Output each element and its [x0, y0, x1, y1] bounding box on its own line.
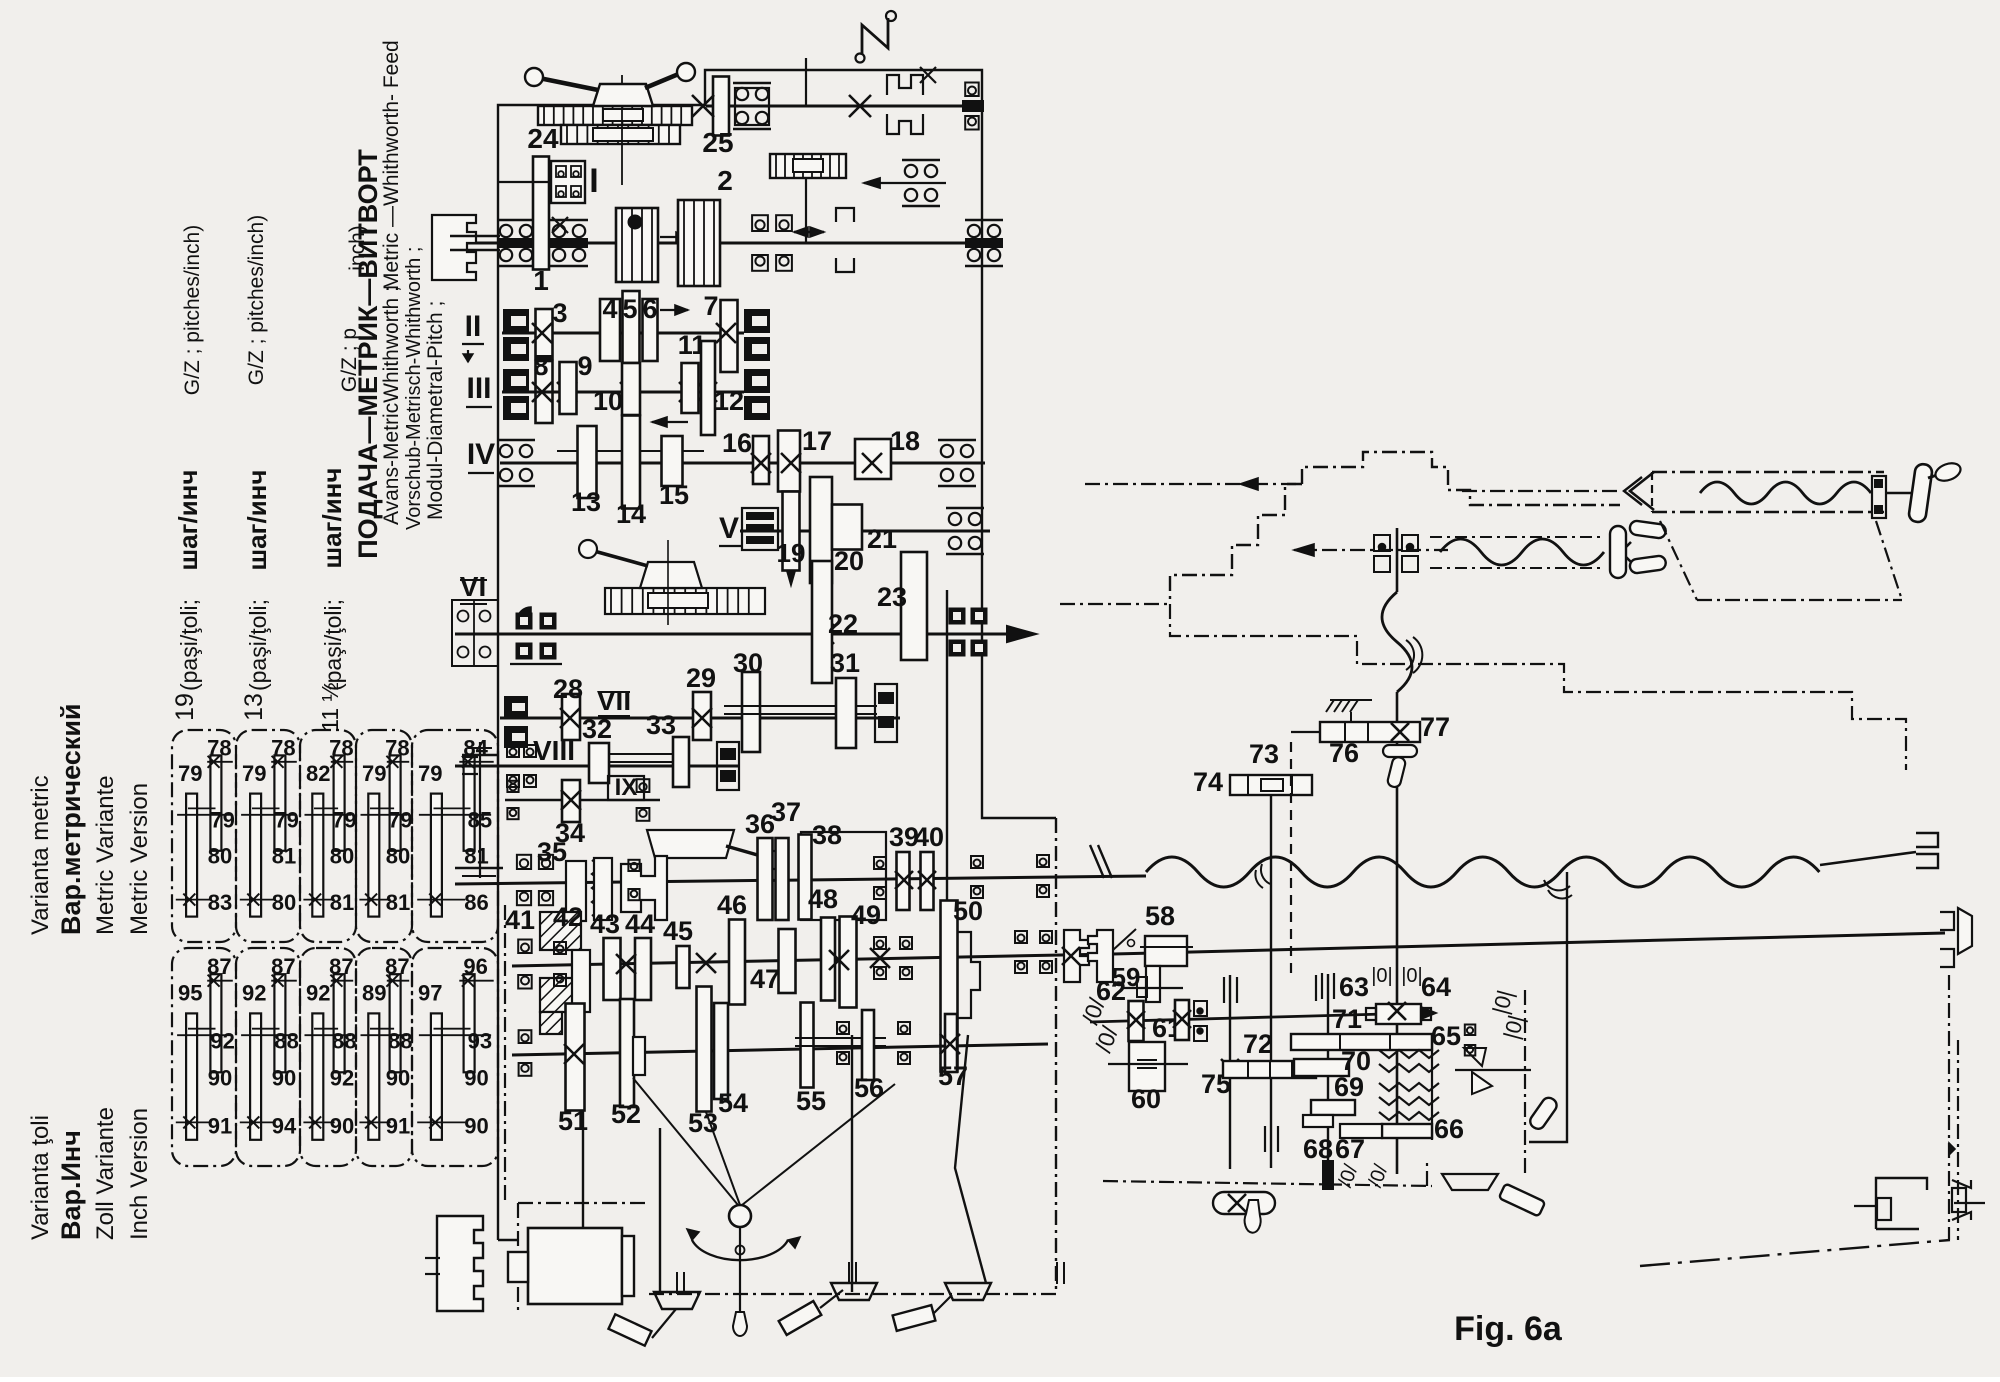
arrow gear10 — [652, 421, 688, 423]
gear 13 — [578, 426, 597, 498]
gear 23 — [901, 552, 927, 660]
vertical link 73 to apron — [1270, 795, 1272, 1168]
svg-text:9: 9 — [577, 351, 592, 381]
leadscrew arc marks — [1544, 880, 1570, 890]
svg-text:80: 80 — [208, 844, 232, 869]
x marks VI — [814, 624, 834, 644]
svg-text:88: 88 — [332, 1028, 356, 1053]
svg-text:72: 72 — [1243, 1029, 1273, 1059]
svg-text:Vorschub-Metrisch-Whithworth ;: Vorschub-Metrisch-Whithworth ; — [403, 247, 425, 530]
overload symbol N — [862, 18, 888, 55]
svg-text:78: 78 — [329, 735, 353, 760]
bearing block I upper — [551, 161, 585, 203]
gear 55 — [801, 1003, 814, 1088]
svg-text:40: 40 — [914, 822, 944, 852]
bottom cover outline — [582, 1075, 584, 1292]
lower shaft 51-57 — [512, 1044, 1048, 1055]
svg-text:51: 51 — [558, 1106, 588, 1136]
svg-text:Zoll Variante: Zoll Variante — [92, 1107, 119, 1240]
bottom right diagonal — [1640, 1240, 1950, 1266]
tailstock screw axis — [1294, 549, 1448, 551]
right end bearing — [1952, 1180, 1971, 1220]
svg-text:92: 92 — [210, 1028, 234, 1053]
svg-text:(paşi/ţoli;: (paşi/ţoli; — [245, 599, 271, 691]
svg-text:86: 86 — [464, 890, 488, 915]
gear 21 — [832, 505, 862, 550]
bearing IX left wall — [507, 781, 518, 792]
toolpost sketch lower — [647, 830, 734, 858]
svg-text:90: 90 — [464, 1113, 488, 1138]
spindle spline left — [432, 215, 476, 280]
svg-text:19: 19 — [171, 693, 199, 721]
bearing gear1 — [550, 219, 588, 222]
arrow into clutch — [864, 182, 946, 184]
right cover verticals — [1524, 990, 1526, 1173]
svg-text:VII: VII — [597, 685, 631, 716]
right border dashdot pair — [1948, 975, 1950, 1240]
gear 14 — [622, 416, 640, 509]
shaft II — [502, 332, 744, 335]
gear 76 77 bar — [1326, 700, 1372, 712]
bearing 4c V right — [946, 507, 984, 510]
svg-text:87: 87 — [271, 954, 295, 979]
svg-text:30: 30 — [733, 648, 763, 678]
svg-text:31: 31 — [830, 648, 860, 678]
tailstock screw fork — [1611, 542, 1631, 562]
svg-text:ПОДАЧА—МЕТРИК—ВИТВОРТ: ПОДАЧА—МЕТРИК—ВИТВОРТ — [353, 149, 383, 559]
svg-text:шаг/инч: шаг/инч — [242, 470, 272, 571]
handle right mid — [1528, 1095, 1560, 1131]
bearing X left — [517, 855, 531, 869]
bearing X right2 — [1037, 855, 1049, 867]
svg-text:Inch Version: Inch Version — [126, 1108, 153, 1240]
gear 35 zigzag clutch — [566, 861, 586, 921]
gear 73 74 bar — [1230, 775, 1312, 795]
bearing VIII left — [507, 745, 519, 757]
svg-text:79: 79 — [210, 808, 234, 833]
aux line IV — [557, 450, 704, 452]
gear with dot shaft I — [616, 208, 658, 282]
svg-text:49: 49 — [851, 900, 881, 930]
gear 61b — [1175, 1000, 1189, 1040]
pulley castellated — [437, 1216, 483, 1311]
selector rod vertical — [1529, 872, 1567, 1142]
pawl lever 65 right — [1464, 1048, 1486, 1066]
gear 18 — [855, 439, 891, 479]
svg-text:88: 88 — [274, 1028, 298, 1053]
svg-text:V: V — [719, 512, 739, 545]
link 76 left — [1291, 731, 1320, 733]
svg-text:58: 58 — [1145, 901, 1175, 931]
svg-text:76: 76 — [1329, 738, 1359, 768]
svg-text:3: 3 — [552, 298, 567, 328]
svg-text:94: 94 — [272, 1113, 297, 1138]
svg-text:46: 46 — [717, 890, 747, 920]
bearing 4c IV right — [938, 439, 976, 442]
gear 52 — [620, 999, 634, 1107]
arrow shaft I — [660, 236, 690, 238]
hub lines VIII — [609, 753, 674, 755]
svg-text:Varianta metric: Varianta metric — [27, 775, 54, 935]
handwheel — [729, 1205, 751, 1227]
shaft break symbol — [1090, 845, 1104, 878]
clutch stack V — [746, 512, 774, 520]
gear 58 — [1145, 936, 1187, 966]
gear 7 — [721, 300, 738, 372]
svg-text:G/Z ; pitches/inch): G/Z ; pitches/inch) — [181, 225, 204, 395]
chuck handle right — [645, 73, 681, 88]
svg-text:77: 77 — [1420, 712, 1450, 742]
shaft III — [502, 391, 744, 394]
gear 11 — [682, 363, 699, 413]
cross shaft 75 — [1229, 975, 1231, 1169]
svg-text:55: 55 — [796, 1086, 826, 1116]
svg-text:VIII: VIII — [533, 735, 575, 766]
ratchet top right — [887, 75, 923, 95]
svg-text:45: 45 — [663, 916, 693, 946]
svg-text:24: 24 — [527, 123, 559, 154]
wall bearings right III — [744, 369, 770, 393]
gear 49 — [840, 917, 857, 1008]
gear 54 — [714, 1003, 728, 1099]
worm top bearing — [1374, 535, 1390, 551]
svg-text:56: 56 — [854, 1073, 884, 1103]
tailstock screw wavy — [1430, 536, 1600, 538]
svg-text:29: 29 — [686, 663, 716, 693]
gear 32 — [589, 743, 609, 783]
metric gear set box 3 — [300, 730, 356, 942]
lever bottom mid — [779, 1301, 822, 1335]
svg-text:78: 78 — [207, 735, 231, 760]
vertical dashed 76 to apron — [1290, 742, 1292, 975]
svg-text:13: 13 — [240, 693, 268, 721]
foot right — [945, 1283, 991, 1300]
svg-text:15: 15 — [659, 480, 689, 510]
shaft VIII — [455, 765, 740, 768]
svg-text:48: 48 — [808, 884, 838, 914]
gear 66 bar — [1382, 1124, 1432, 1138]
gear 16 — [753, 436, 769, 484]
svg-text:80: 80 — [272, 890, 296, 915]
svg-text:Metric Variante: Metric Variante — [92, 775, 119, 935]
gear 34 — [562, 780, 580, 822]
gears 36 37 — [758, 838, 773, 920]
motor — [528, 1228, 622, 1304]
clutch dark VII right — [875, 684, 897, 742]
svg-text:80: 80 — [386, 844, 410, 869]
bearing X mid — [874, 857, 886, 869]
bearing 4c IV left — [497, 439, 535, 442]
gear 2 — [678, 200, 720, 286]
metric gear set box 5 — [412, 730, 498, 942]
vertical shaft 1328 — [1327, 974, 1329, 1160]
gear 71 bar — [1291, 1034, 1432, 1050]
bearing 61 — [1194, 1001, 1207, 1016]
gear 33 — [673, 737, 689, 787]
carriage quill band — [1652, 471, 1884, 473]
svg-text:IX: IX — [615, 774, 638, 801]
arrow shaft VI — [1007, 626, 1036, 642]
svg-text:79: 79 — [332, 808, 356, 833]
svg-text:7: 7 — [703, 291, 718, 321]
svg-text:II: II — [465, 310, 482, 343]
carriage top dashdot — [1085, 483, 1302, 485]
svg-text:17: 17 — [802, 426, 832, 456]
safety pin symbol — [1113, 929, 1136, 950]
gear 72 bar — [1223, 1061, 1316, 1078]
svg-text:шаг/инч: шаг/инч — [317, 468, 347, 569]
svg-text:87: 87 — [207, 954, 231, 979]
svg-text:92: 92 — [242, 980, 266, 1005]
svg-text:64: 64 — [1421, 972, 1451, 1002]
clutch dark VIII — [717, 742, 739, 790]
gear 9 — [560, 362, 577, 414]
svg-text:Вар.метрический: Вар.метрический — [56, 703, 86, 935]
bearing dark shaft I rightwall — [965, 219, 1003, 222]
gear 19 — [783, 492, 800, 571]
svg-text:90: 90 — [330, 1113, 354, 1138]
chuck body — [538, 106, 692, 125]
shift fork brackets — [836, 208, 854, 222]
metric gear set box 1 — [172, 730, 236, 942]
shaft 25 — [706, 105, 981, 108]
gear 51 — [566, 1004, 585, 1111]
overrunning clutch 25 — [770, 154, 846, 178]
gear 38 and box — [801, 832, 886, 920]
svg-text:90: 90 — [386, 1065, 410, 1090]
svg-text:90: 90 — [208, 1065, 232, 1090]
gear 60 — [1129, 1042, 1165, 1091]
svg-text:13: 13 — [571, 487, 601, 517]
apron right foot — [1442, 1174, 1498, 1190]
chuck handle left — [593, 84, 653, 106]
carriage screw axis left — [1462, 490, 1622, 492]
shaft V — [740, 530, 990, 533]
gear 8 — [536, 361, 553, 423]
inch gear set box 2 — [236, 948, 300, 1166]
svg-text:11 ½: 11 ½ — [317, 682, 343, 731]
svg-text:Metric Version: Metric Version — [126, 783, 153, 935]
shaft VI — [455, 633, 1007, 636]
toolpost sketch middle — [605, 588, 765, 614]
svg-text:54: 54 — [718, 1088, 748, 1118]
square bearings VI right — [949, 608, 966, 625]
shaft XI feed rod — [512, 954, 1113, 966]
apron bottom lever — [1213, 1192, 1275, 1214]
svg-text:97: 97 — [418, 980, 442, 1005]
dark blob VI — [517, 607, 531, 620]
svg-text:90: 90 — [272, 1065, 296, 1090]
svg-text:78: 78 — [271, 735, 295, 760]
x mark shaft25 right — [849, 95, 871, 117]
gear 30 — [742, 672, 760, 752]
apron vertical 1432 — [1431, 1034, 1433, 1140]
bearing lower left — [519, 1030, 532, 1043]
svg-text:89: 89 — [362, 980, 386, 1005]
square bearings VI left — [516, 613, 533, 630]
svg-text:68: 68 — [1303, 1134, 1333, 1164]
svg-text:79: 79 — [178, 761, 202, 786]
wall bearings left III — [503, 369, 529, 393]
shaft IV — [500, 462, 985, 465]
svg-text:23: 23 — [877, 582, 907, 612]
svg-text:83: 83 — [208, 890, 232, 915]
svg-text:82: 82 — [306, 761, 330, 786]
svg-text:III: III — [466, 372, 491, 405]
svg-text:Fig. 6a: Fig. 6a — [1454, 1310, 1563, 1348]
svg-text:92: 92 — [330, 1065, 354, 1090]
inch gear set box 1 — [172, 948, 236, 1166]
svg-text:63: 63 — [1339, 972, 1369, 1002]
gear 69 bar — [1311, 1100, 1355, 1115]
svg-text:32: 32 — [582, 714, 612, 744]
quill housing slant — [1660, 521, 1697, 600]
double arrow shaft I — [794, 231, 824, 233]
svg-text:5: 5 — [622, 294, 637, 324]
gearbox inner partition vertical right — [946, 590, 948, 905]
link line VII — [724, 705, 877, 707]
foot left — [654, 1292, 700, 1309]
bearing IX — [637, 779, 650, 792]
lever bottom mid2 — [893, 1305, 936, 1331]
svg-text:Varianta ţoli: Varianta ţoli — [27, 1115, 54, 1240]
svg-text:79: 79 — [388, 808, 412, 833]
x marks III — [532, 382, 552, 402]
svg-text:IV: IV — [467, 438, 495, 471]
inch gear set box 3 — [300, 948, 356, 1166]
svg-text:81: 81 — [386, 890, 410, 915]
svg-text:2: 2 — [717, 165, 733, 196]
svg-text:Вар.Инч: Вар.Инч — [56, 1130, 86, 1240]
gear 45 — [677, 946, 690, 988]
leadscrew wavy — [1146, 857, 1819, 887]
vertical worm shaft — [1396, 528, 1399, 592]
change gear quadrant circles — [452, 600, 498, 666]
svg-text:28: 28 — [553, 674, 583, 704]
wall bearings right II — [744, 309, 770, 333]
shaft IX — [505, 799, 660, 802]
svg-text:52: 52 — [611, 1099, 641, 1129]
x mark shaft25 — [692, 95, 714, 117]
svg-text:I: I — [589, 162, 598, 200]
svg-text:91: 91 — [208, 1113, 232, 1138]
svg-text:79: 79 — [274, 808, 298, 833]
ground symbol right of metric box 5 — [479, 742, 481, 878]
inch gear set box 4 — [356, 948, 412, 1166]
bearing 4c right mid — [902, 159, 940, 162]
apron bottom dashdot — [1103, 1181, 1432, 1186]
gear 3 — [536, 309, 553, 359]
svg-text:65: 65 — [1431, 1021, 1461, 1051]
bearing right shaft25 — [965, 83, 979, 97]
svg-text:|0|: |0| — [1401, 965, 1423, 987]
shaft VII — [500, 717, 900, 720]
svg-text:79: 79 — [418, 761, 442, 786]
bearing XI left — [518, 940, 532, 954]
gear 10 — [622, 363, 640, 415]
svg-text:73: 73 — [1249, 739, 1279, 769]
svg-text:81: 81 — [272, 844, 296, 869]
feed rod right end — [1940, 912, 1954, 930]
svg-text:22: 22 — [828, 609, 858, 639]
svg-text:33: 33 — [646, 710, 676, 740]
svg-text:16: 16 — [722, 428, 752, 458]
gears 4 5 6 — [600, 299, 620, 361]
jaw clutch 59 — [1064, 930, 1089, 982]
gear 62 small — [1122, 987, 1183, 989]
svg-text:6: 6 — [642, 294, 657, 324]
svg-text:шаг/инч: шаг/инч — [173, 470, 203, 571]
svg-text:Modul-Diametral-Pitch ;: Modul-Diametral-Pitch ; — [424, 301, 447, 520]
gear 47 — [779, 929, 796, 993]
slider coupling X — [621, 856, 667, 920]
svg-text:91: 91 — [386, 1113, 410, 1138]
svg-text:21: 21 — [867, 524, 897, 554]
tailstock outline — [1302, 452, 1620, 505]
gear 57 — [945, 1014, 957, 1072]
svg-text:(paşi/ţoli;: (paşi/ţoli; — [320, 599, 346, 691]
wall bearing VII left — [504, 696, 528, 718]
svg-text:8: 8 — [533, 351, 548, 381]
chuck centerline — [621, 75, 623, 185]
lever bottom left — [608, 1314, 651, 1345]
svg-text:18: 18 — [890, 426, 920, 456]
svg-text:G/Z ; pitches/inch): G/Z ; pitches/inch) — [245, 215, 268, 385]
wall bearings left II — [503, 309, 529, 333]
hub lines lower — [795, 1037, 886, 1039]
svg-text:50: 50 — [953, 896, 983, 926]
gear 22 — [812, 561, 832, 683]
gear 50 — [941, 901, 958, 1072]
gear 48 — [821, 918, 835, 1001]
carriage screw wavy — [1700, 482, 1871, 504]
svg-text:96: 96 — [463, 954, 487, 979]
gear 24 — [533, 157, 549, 270]
bearing pair shaft I right — [752, 215, 768, 231]
gear 42 hatched — [540, 912, 581, 950]
bearing XI right — [1015, 931, 1027, 943]
shaft I — [450, 242, 999, 245]
svg-text:37: 37 — [771, 797, 801, 827]
svg-text:38: 38 — [812, 820, 842, 850]
metric gear set box 4 — [356, 730, 412, 942]
svg-text:81: 81 — [464, 844, 488, 869]
gear 29 — [693, 692, 711, 740]
carriage handle — [1908, 463, 1933, 523]
svg-text:4: 4 — [602, 294, 617, 324]
svg-text:35: 35 — [537, 837, 567, 867]
svg-text:Metric —Whithworth- Feed: Metric —Whithworth- Feed — [380, 40, 403, 290]
bearing XI mid — [874, 937, 886, 949]
foot tick marks — [676, 1272, 678, 1294]
lever below 76 — [1383, 745, 1417, 757]
svg-text:87: 87 — [329, 954, 353, 979]
gear 31 — [836, 678, 856, 748]
svg-text:80: 80 — [330, 844, 354, 869]
svg-text:57: 57 — [938, 1061, 968, 1091]
svg-text:14: 14 — [616, 499, 646, 529]
arrow gears456 — [660, 309, 688, 311]
svg-text:79: 79 — [362, 761, 386, 786]
gear 28 — [562, 694, 580, 740]
gearbox bottom left outline — [498, 1239, 518, 1241]
foot mid — [831, 1283, 877, 1300]
svg-text:95: 95 — [178, 980, 202, 1005]
right area outline — [1426, 1160, 1428, 1186]
svg-text:44: 44 — [625, 909, 655, 939]
gear 20 — [810, 477, 832, 583]
carriage screw chevron end — [1630, 472, 1654, 510]
